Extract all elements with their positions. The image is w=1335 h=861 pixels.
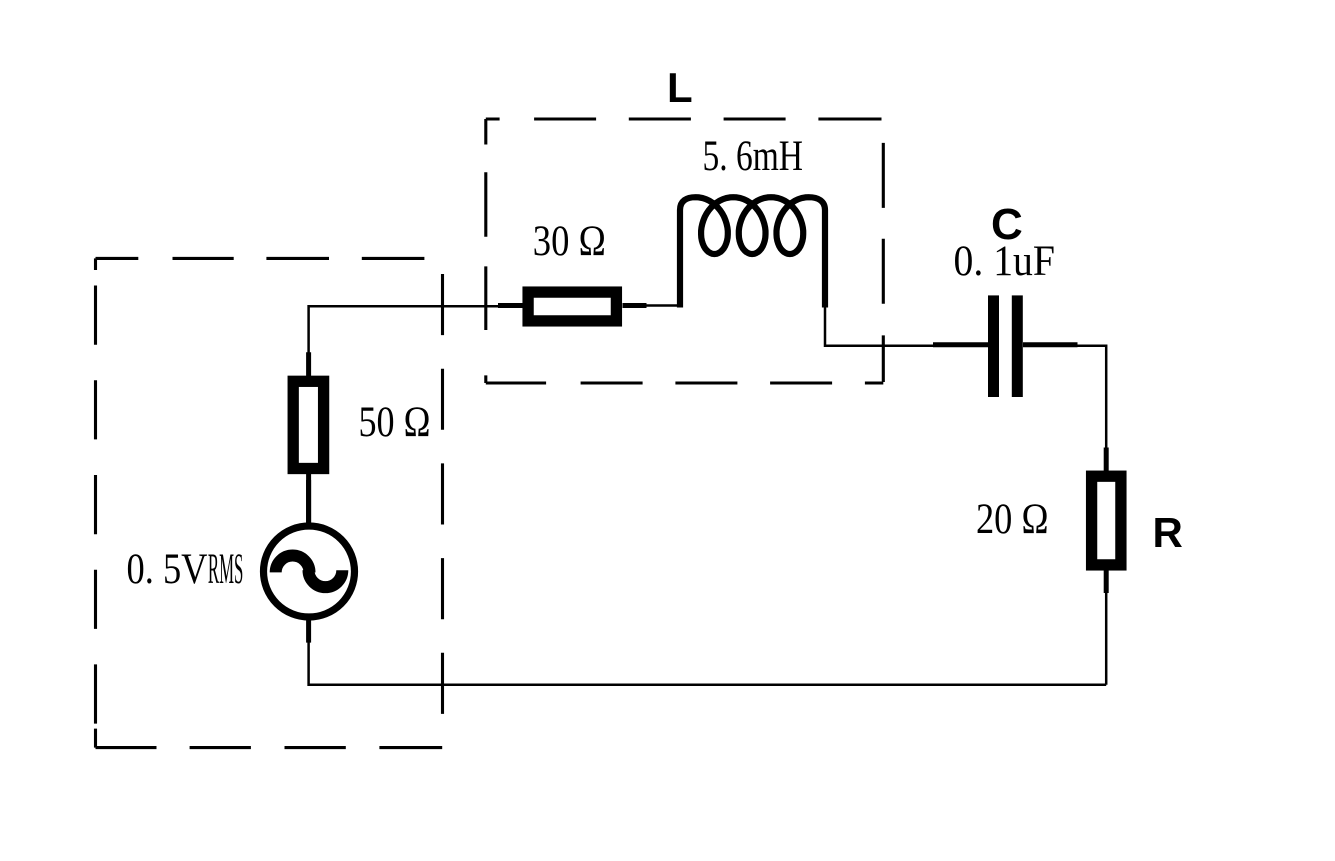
wire from source top corner to 30ohm resistor <box>309 306 522 352</box>
resistor 50 ohm leads <box>306 352 311 523</box>
AC source sine symbol <box>276 556 343 588</box>
AC source V1 leads <box>306 480 311 643</box>
svg-text:RMS: RMS <box>208 546 244 593</box>
svg-text:30 Ω: 30 Ω <box>533 218 606 265</box>
inductor subcircuit dashed box L: left edge <box>484 119 487 383</box>
inductor subcircuit dashed box L: top edge <box>486 117 884 120</box>
svg-text:5. 6mH: 5. 6mH <box>703 133 804 180</box>
inductor 5.6mH coil <box>680 197 825 307</box>
source subcircuit dashed box: left edge <box>94 258 97 747</box>
resistor 30 ohm leads <box>498 303 647 308</box>
wire from capacitor to resistor R <box>1078 346 1107 449</box>
resistor R body <box>1092 476 1121 565</box>
wire from resistor R down to bottom rail <box>1105 592 1108 685</box>
source subcircuit dashed box: bottom edge <box>96 746 443 749</box>
svg-text:0. 1uF: 0. 1uF <box>954 238 1056 285</box>
svg-text:L: L <box>667 64 693 111</box>
inductor subcircuit dashed box L: right edge <box>882 119 885 383</box>
svg-text:0. 5V: 0. 5V <box>127 546 208 593</box>
wire from inductor down to capacitor <box>825 306 933 346</box>
bottom wire rail <box>309 642 1107 685</box>
AC source V1 circle <box>264 526 355 617</box>
svg-text:20 Ω: 20 Ω <box>976 496 1049 543</box>
inductor subcircuit dashed box L: bottom edge <box>486 381 884 384</box>
svg-text:50 Ω: 50 Ω <box>359 399 431 446</box>
wire from 30ohm resistor to inductor <box>646 304 680 307</box>
capacitor C right plate <box>1012 295 1023 397</box>
capacitor C left plate <box>988 295 999 397</box>
resistor R leads <box>1104 448 1109 594</box>
resistor 30 ohm body <box>528 292 616 321</box>
source subcircuit dashed box: top edge <box>96 257 443 260</box>
capacitor C leads <box>933 342 1078 347</box>
resistor 50 ohm body <box>293 381 323 468</box>
source subcircuit dashed box: right edge <box>441 258 444 747</box>
svg-text:R: R <box>1153 509 1183 556</box>
